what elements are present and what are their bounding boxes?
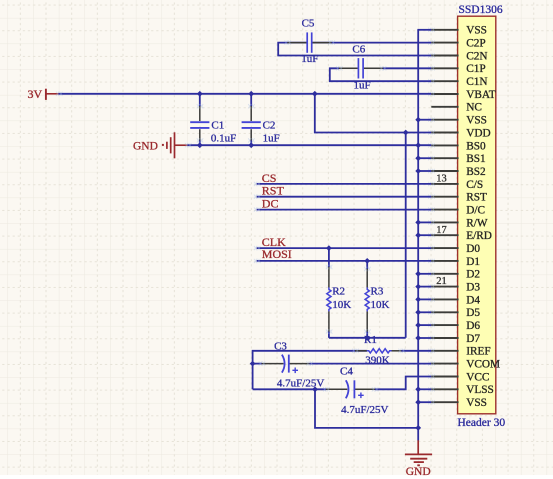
junction bus D4 xyxy=(415,297,421,303)
svg-text:Header 30: Header 30 xyxy=(458,417,506,429)
wire bus stub VLSS xyxy=(418,388,431,390)
svg-text:IREF: IREF xyxy=(466,346,490,358)
junction bus BS2 xyxy=(415,168,421,174)
wire R2 bottom xyxy=(328,332,330,338)
svg-text:0.1uF: 0.1uF xyxy=(211,132,236,144)
svg-text:VLSS: VLSS xyxy=(466,384,494,396)
svg-text:D/C: D/C xyxy=(466,205,485,217)
svg-text:390K: 390K xyxy=(365,355,390,367)
svg-text:E/RD: E/RD xyxy=(466,230,492,242)
pin 22 D4 xyxy=(428,294,480,306)
wire bus stub E/RD xyxy=(418,234,431,236)
wire MOSI to R3 xyxy=(366,261,368,269)
capacitor C5 xyxy=(287,18,331,65)
pin 6 VBAT xyxy=(428,89,495,101)
junction C4/GND drop xyxy=(312,386,318,392)
resistor R3 xyxy=(365,269,389,332)
wire CLK to D0 pin xyxy=(257,247,432,249)
junction CLK/R2 xyxy=(326,245,332,251)
junction 3V/C2 xyxy=(248,91,254,97)
svg-text:NC: NC xyxy=(466,102,482,114)
pin 1 VSS xyxy=(428,25,487,37)
svg-text:VSS: VSS xyxy=(466,397,487,409)
junction bus D7 xyxy=(415,335,421,341)
svg-text:1uF: 1uF xyxy=(301,53,318,65)
svg-text:VDD: VDD xyxy=(466,127,490,139)
junction GND/C1 xyxy=(197,142,203,148)
pin 13 C/S xyxy=(428,174,483,191)
pin 11 BS1 xyxy=(428,153,485,165)
svg-text:C4: C4 xyxy=(340,366,353,378)
wire DC to D/C pin xyxy=(257,209,432,211)
pin 15 D/C xyxy=(428,205,485,217)
junction 3V/C1 xyxy=(197,91,203,97)
svg-text:4.7uF/25V: 4.7uF/25V xyxy=(277,377,324,389)
resistor R1 xyxy=(355,334,402,366)
wire bus stub VSS8 xyxy=(418,119,431,121)
svg-text:VBAT: VBAT xyxy=(466,89,496,101)
svg-text:C1: C1 xyxy=(211,120,224,132)
capacitor C6 xyxy=(339,44,383,92)
junction bus BS1 xyxy=(415,155,421,161)
junction bus bottom rail xyxy=(415,425,421,431)
wire CS to C/S pin xyxy=(257,183,432,185)
wire bus stub D5 xyxy=(418,311,431,313)
svg-text:BS0: BS0 xyxy=(466,140,486,152)
wire VDD pull-up vertical xyxy=(405,133,407,338)
wire R2/R3 bottoms to VDD vertical xyxy=(329,337,406,339)
wire bus stub D6 xyxy=(418,324,431,326)
junction bus D6 xyxy=(415,322,421,328)
junction GND/bus BS0 xyxy=(415,142,421,148)
wire VSS pin1 stub xyxy=(417,29,431,31)
pin 4 C1P xyxy=(428,63,485,75)
svg-text:RST: RST xyxy=(466,192,487,204)
node GND wire start mark xyxy=(185,143,191,147)
svg-text:D5: D5 xyxy=(466,307,480,319)
svg-text:D1: D1 xyxy=(466,256,480,268)
wire GND bus vertical xyxy=(417,30,419,428)
wire R3 bottom xyxy=(366,332,368,338)
wire bus stub D4 xyxy=(418,298,431,300)
svg-text:D6: D6 xyxy=(466,320,480,332)
wire GND rail bottom left xyxy=(253,388,327,390)
svg-text:VCC: VCC xyxy=(466,371,489,383)
wire MOSI to D1 pin xyxy=(257,260,432,262)
junction bus D2 xyxy=(415,271,421,277)
capacitor C2 xyxy=(242,106,280,144)
svg-text:1uF: 1uF xyxy=(354,79,371,91)
junction MOSI/R3 xyxy=(364,258,370,264)
junction bus R/W xyxy=(415,220,421,226)
svg-text:R1: R1 xyxy=(364,334,377,346)
svg-text:D4: D4 xyxy=(466,294,480,306)
svg-text:C/S: C/S xyxy=(466,179,483,191)
svg-text:VCOM: VCOM xyxy=(466,359,500,371)
pin 20 D2 xyxy=(428,269,480,281)
junction C3 left xyxy=(250,361,256,367)
wire bus stub D7 xyxy=(418,337,431,339)
svg-text:MOSI: MOSI xyxy=(262,247,292,261)
junction bus VSS30 xyxy=(415,399,421,405)
wire bus stub VSS30 xyxy=(418,401,431,403)
pin 5 C1N xyxy=(428,76,487,88)
pin 25 D7 xyxy=(428,333,480,345)
svg-text:GND: GND xyxy=(133,140,158,152)
pin 14 RST xyxy=(428,192,487,204)
wire C1 top lead xyxy=(199,94,201,107)
svg-text:3V: 3V xyxy=(28,87,43,101)
pin 23 D5 xyxy=(428,307,480,319)
svg-text:SSD1306: SSD1306 xyxy=(459,4,503,16)
wire bus stub BS2 xyxy=(418,170,431,172)
svg-text:BS2: BS2 xyxy=(466,166,486,178)
pin 21 D3 xyxy=(428,276,480,293)
wire bus stub D3 xyxy=(418,286,431,288)
pin 3 C2N xyxy=(428,50,487,62)
svg-text:C2N: C2N xyxy=(466,50,487,62)
junction bus VLSS xyxy=(415,386,421,392)
capacitor C3 polarized xyxy=(262,341,325,390)
pin 7 NC xyxy=(431,102,482,114)
svg-text:C1N: C1N xyxy=(466,76,487,88)
wire R1 right to IREF pin xyxy=(401,350,431,352)
svg-text:BS1: BS1 xyxy=(466,153,485,165)
pin 30 VSS xyxy=(428,397,487,409)
svg-text:10K: 10K xyxy=(332,299,351,311)
svg-text:C2P: C2P xyxy=(466,38,485,50)
svg-text:VSS: VSS xyxy=(466,115,487,127)
svg-text:C1P: C1P xyxy=(466,63,485,75)
svg-text:D0: D0 xyxy=(466,243,480,255)
wire GND drop to bottom rail xyxy=(315,389,418,428)
wire C6 left loop xyxy=(330,68,432,81)
ground GND (left) xyxy=(133,132,187,158)
junction VDD/pull-up xyxy=(403,130,409,136)
pin 24 D6 xyxy=(428,320,480,332)
wire C2 top lead xyxy=(250,94,252,107)
pin 27 VCOM xyxy=(428,359,500,371)
svg-text:R/W: R/W xyxy=(466,217,488,229)
ground GND (bottom) xyxy=(405,440,432,478)
svg-text:C3: C3 xyxy=(274,341,287,353)
wire VBAT to VDD branch xyxy=(315,94,432,133)
svg-text:4.7uF/25V: 4.7uF/25V xyxy=(341,404,388,416)
connector header SSD1306 body xyxy=(458,16,496,414)
junction 3V/VDD branch xyxy=(312,91,318,97)
wire bus stub D2 xyxy=(418,273,431,275)
junction bus E/RD xyxy=(415,232,421,238)
pin 16 R/W xyxy=(428,217,488,229)
wire bus stub BS1 xyxy=(418,157,431,159)
pin 17 E/RD xyxy=(428,225,492,242)
pin 10 BS0 xyxy=(428,140,486,152)
wire GND rail to BS0 xyxy=(187,144,431,146)
pin 18 D0 xyxy=(428,243,480,255)
svg-text:10K: 10K xyxy=(371,299,390,311)
svg-text:D3: D3 xyxy=(466,282,480,294)
pin 28 VCC xyxy=(428,371,489,383)
capacitor C1 xyxy=(190,106,236,144)
wire bus to GND symbol xyxy=(417,428,419,441)
capacitor C4 polarized xyxy=(326,366,389,416)
pin 29 VLSS xyxy=(428,384,494,396)
wire C1 bottom lead xyxy=(199,140,201,145)
resistor R2 xyxy=(327,267,351,332)
junction GND/C2 xyxy=(248,142,254,148)
pin 19 D1 xyxy=(428,256,480,268)
node 3V wire start mark xyxy=(56,92,62,96)
node component connection marks xyxy=(285,40,291,44)
wire C2 bottom lead xyxy=(250,140,252,145)
svg-text:DC: DC xyxy=(262,197,279,211)
junction bus D3 xyxy=(415,284,421,290)
svg-text:1uF: 1uF xyxy=(263,132,280,144)
svg-text:R3: R3 xyxy=(371,286,384,298)
svg-text:D2: D2 xyxy=(466,269,480,281)
svg-text:VSS: VSS xyxy=(466,25,487,37)
wire C1P (C6 right) xyxy=(383,67,432,69)
wire C3 left stub xyxy=(253,363,262,365)
svg-text:D7: D7 xyxy=(466,333,480,345)
wire 3V rail to VBAT xyxy=(58,93,431,95)
wire C5 left loop xyxy=(278,43,431,56)
pin 12 BS2 xyxy=(428,166,486,178)
pin 2 C2P xyxy=(428,38,485,50)
junction bus D5 xyxy=(415,309,421,315)
junction R3 bottom xyxy=(364,335,370,341)
svg-text:GND: GND xyxy=(406,466,431,478)
pin 8 VSS xyxy=(428,115,487,127)
pin 26 IREF xyxy=(428,346,490,358)
svg-text:13: 13 xyxy=(436,174,447,185)
junction bus VSS8 xyxy=(415,117,421,123)
wire RST to RST pin xyxy=(257,196,432,198)
wire C3 right to VCOM pin xyxy=(310,363,432,365)
svg-text:RST: RST xyxy=(262,184,285,198)
wire bus stub R/W xyxy=(418,221,431,223)
svg-text:C5: C5 xyxy=(302,18,315,30)
svg-text:C6: C6 xyxy=(352,44,365,56)
wire C2P (C5 right) xyxy=(312,42,431,44)
svg-text:R2: R2 xyxy=(332,286,345,298)
wire R1 left / GND side vertical xyxy=(253,351,367,390)
svg-text:17: 17 xyxy=(436,225,447,236)
wire C4 right to VCC pin xyxy=(375,377,431,390)
svg-text:C2: C2 xyxy=(263,120,276,132)
wire CLK to R2 xyxy=(328,248,330,267)
svg-text:21: 21 xyxy=(436,276,447,287)
power port 3V xyxy=(28,87,59,101)
pin 9 VDD xyxy=(428,127,490,139)
